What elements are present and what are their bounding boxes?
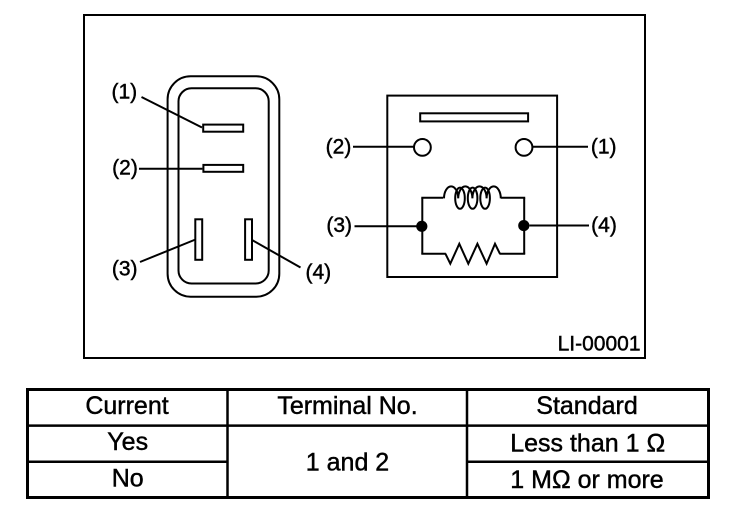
inductor coil loop b [468, 188, 478, 209]
svg-text:Standard: Standard [536, 392, 637, 420]
leader line (3) relay [355, 225, 417, 227]
svg-text:1 and 2: 1 and 2 [306, 448, 389, 476]
terminal slot 3 [195, 219, 202, 259]
node dot terminal 4 [518, 220, 529, 231]
leader line (2) connector [139, 168, 202, 170]
terminal slot 4 [245, 219, 252, 259]
coil loop bottom-left wire [421, 253, 446, 255]
terminal circle 2 [414, 139, 431, 156]
leader line (4) connector [253, 240, 301, 267]
table column separator 2 [466, 388, 469, 498]
svg-text:(4): (4) [591, 214, 617, 237]
resistor zigzag [445, 244, 500, 264]
coil loop left wire [421, 198, 423, 254]
coil loop top-left wire [421, 197, 443, 199]
leader line (1) relay [532, 146, 588, 148]
connector inner shell [179, 88, 269, 283]
svg-text:(1): (1) [591, 136, 617, 159]
table outer border [28, 390, 709, 498]
terminal slot 1 [203, 125, 243, 132]
leader line (4) relay [530, 225, 590, 227]
terminal slot 2 [203, 165, 243, 172]
svg-text:(4): (4) [305, 261, 331, 284]
inductor coil loop c [480, 188, 490, 209]
svg-text:Current: Current [85, 392, 168, 420]
table column separator 1 [226, 388, 229, 498]
coil loop top-right wire [501, 197, 525, 199]
svg-text:Yes: Yes [107, 428, 148, 456]
leader line (3) connector [140, 240, 196, 263]
table header row separator [26, 424, 710, 427]
svg-text:Terminal No.: Terminal No. [277, 392, 417, 420]
svg-text:LI-00001: LI-00001 [558, 333, 641, 356]
svg-text:No: No [112, 465, 144, 493]
leader line (1) connector [142, 97, 203, 128]
inductor coil loop a [455, 188, 465, 209]
svg-text:(1): (1) [111, 80, 137, 103]
contact bar [420, 113, 528, 121]
inductor coil bumps [444, 186, 501, 198]
coil loop bottom-right wire [499, 253, 525, 255]
svg-text:1 MΩ or more: 1 MΩ or more [510, 466, 663, 494]
node dot terminal 3 [416, 221, 427, 232]
connector outer shell [168, 76, 280, 296]
relay box [387, 96, 557, 277]
svg-text:Less than 1 Ω: Less than 1 Ω [510, 429, 665, 457]
table row separator col1 [26, 461, 228, 464]
leader line (2) relay [353, 146, 414, 148]
coil loop right wire [523, 198, 525, 254]
table row separator col3 [467, 461, 710, 464]
svg-text:(3): (3) [112, 257, 138, 280]
svg-text:(3): (3) [326, 214, 352, 237]
svg-text:(2): (2) [326, 136, 352, 159]
figure frame [84, 15, 645, 358]
terminal circle 1 [516, 139, 533, 156]
svg-text:(2): (2) [112, 157, 138, 180]
